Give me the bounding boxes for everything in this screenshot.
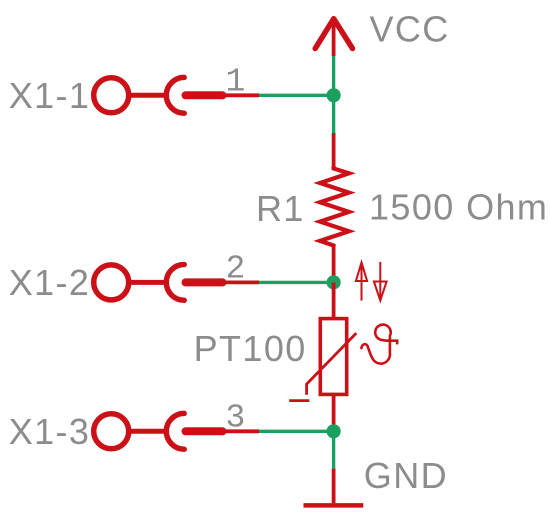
power symbol VCC xyxy=(315,19,352,56)
ground symbol GND xyxy=(304,469,364,506)
temperature symbol theta xyxy=(361,325,397,364)
svg-text:R1: R1 xyxy=(256,188,305,229)
svg-text:2: 2 xyxy=(226,250,246,287)
connector X1-1 xyxy=(94,77,259,113)
wire X1-2 to node (horizontal) xyxy=(259,281,334,284)
resistor R1 xyxy=(320,133,349,282)
svg-text:VCC: VCC xyxy=(370,9,450,50)
svg-text:PT100: PT100 xyxy=(194,328,307,369)
svg-text:GND: GND xyxy=(364,455,448,496)
svg-text:1500 Ohm: 1500 Ohm xyxy=(369,187,548,228)
wire VCC to R1 (vertical) xyxy=(332,56,335,133)
wire X1-3 to node (horizontal) xyxy=(259,430,334,433)
connector X1-2 xyxy=(94,265,259,301)
svg-text:X1-1: X1-1 xyxy=(9,75,91,116)
thermistor PT100 xyxy=(289,282,356,431)
junction node X1-2/R1/PT100 xyxy=(327,275,341,289)
svg-text:X1-2: X1-2 xyxy=(9,262,91,303)
junction node X1-3/PT100/GND xyxy=(327,424,341,438)
wire X1-1 to node (horizontal) xyxy=(259,94,334,97)
svg-text:X1-3: X1-3 xyxy=(9,411,91,452)
connector X1-3 xyxy=(94,413,259,449)
junction node X1-1/VCC xyxy=(327,88,341,102)
svg-text:3: 3 xyxy=(226,399,246,436)
current variation arrows xyxy=(356,262,387,301)
svg-text:1: 1 xyxy=(226,63,246,100)
wire node to GND (vertical) xyxy=(332,431,335,468)
